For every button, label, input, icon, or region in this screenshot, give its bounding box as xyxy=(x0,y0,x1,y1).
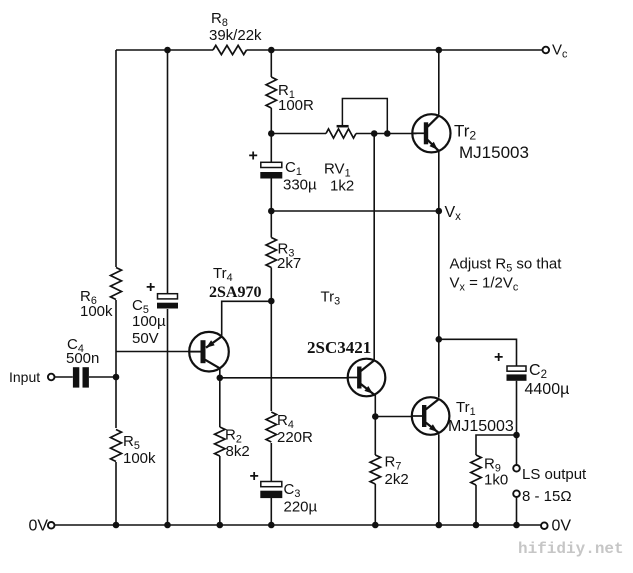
svg-text:2k7: 2k7 xyxy=(277,255,301,272)
junction top rail / C5 column xyxy=(164,47,171,54)
svg-text:hifidiy.net: hifidiy.net xyxy=(518,540,624,558)
svg-text:8k2: 8k2 xyxy=(226,443,250,460)
junction RV1 wiper return xyxy=(384,130,391,137)
watermark hifidiy.net xyxy=(518,540,624,558)
wire Tr3 emitter down to R7 node xyxy=(374,394,376,417)
wire C2 down to LS junction xyxy=(516,381,518,435)
wire C4 to divider node xyxy=(89,376,116,378)
terminal 0V left xyxy=(29,518,55,535)
svg-text:100k: 100k xyxy=(80,303,113,320)
wire left column from top rail down to bottom rail xyxy=(115,50,117,525)
junction Vx / C1 column xyxy=(268,208,275,215)
resistor R6 100k xyxy=(80,267,123,320)
transistor Tr2 MJ15003 (NPN) xyxy=(412,114,529,162)
wire top supply rail from R8 to Vc terminal xyxy=(247,49,547,51)
svg-text:330µ: 330µ xyxy=(283,177,317,194)
svg-text:2SC3421: 2SC3421 xyxy=(307,338,371,357)
wire Tr2 emitter to Vx node xyxy=(438,152,440,211)
wire R9 branch xyxy=(476,435,517,455)
capacitor C5 100u 50V electrolytic xyxy=(132,279,178,347)
potentiometer RV1 1k2 (rheostat, wiper tied to right end) xyxy=(324,99,387,195)
resistor R7 2k2 xyxy=(370,417,409,526)
junction bottom rail / R2 xyxy=(217,522,224,529)
junction C4 / R5-R6 divider xyxy=(113,374,120,381)
junction bottom rail / R7 xyxy=(372,522,379,529)
resistor R1 100R xyxy=(266,77,314,114)
svg-text:0V: 0V xyxy=(29,518,49,535)
svg-text:100R: 100R xyxy=(278,97,314,114)
wire RV1 net from node A to Tr2 base xyxy=(271,133,416,135)
svg-text:+: + xyxy=(249,148,258,165)
svg-text:1k2: 1k2 xyxy=(330,178,354,195)
wire R1 column from top rail to node A xyxy=(270,50,272,134)
svg-text:1k0: 1k0 xyxy=(484,472,508,489)
label LS impedance 8-15 ohm xyxy=(522,488,572,505)
junction Vx / Tr2 emitter xyxy=(436,208,443,215)
wire C1 to Vx node xyxy=(270,179,272,212)
junction node A (R1/C1/RV1) xyxy=(268,130,275,137)
resistor R4 220R xyxy=(265,411,313,446)
annotation adjust R5 xyxy=(450,256,563,294)
wire node A down to C1 xyxy=(270,134,272,164)
wire Tr3 base rail xyxy=(220,377,348,379)
svg-text:2k2: 2k2 xyxy=(385,471,409,488)
wire Tr4 base to R5/R6 divider xyxy=(116,351,202,353)
junction bottom rail / R5 xyxy=(113,522,120,529)
wire Tr2 collector to top rail xyxy=(438,50,440,115)
resistor R5 100k xyxy=(110,428,157,467)
svg-text:39k/22k: 39k/22k xyxy=(209,27,262,44)
terminal LS output upper xyxy=(513,465,520,472)
junction bottom rail / Tr1 emitter xyxy=(436,522,443,529)
wire R3 column from Vx node to Tr4 emitter node xyxy=(270,211,272,301)
wire Tr2 emitter column from Vx down to C2 junction and Tr1 collector xyxy=(438,211,440,398)
svg-text:220R: 220R xyxy=(277,429,313,446)
wire C2 branch from output node xyxy=(439,339,517,366)
wire R4 from Tr4 emitter node down to C3 xyxy=(270,301,272,482)
svg-text:Input: Input xyxy=(9,369,40,385)
svg-text:8 - 15Ω: 8 - 15Ω xyxy=(522,488,572,505)
svg-text:100µ: 100µ xyxy=(132,313,166,330)
capacitor C1 330u electrolytic xyxy=(249,148,318,194)
wire input terminal to C4 xyxy=(55,376,73,378)
svg-text:4400µ: 4400µ xyxy=(525,381,570,398)
junction top rail / R1 column xyxy=(268,47,275,54)
wire Tr1 emitter to bottom rail xyxy=(438,434,440,525)
svg-text:LS output: LS output xyxy=(522,466,587,483)
resistor R2 8k2 xyxy=(215,378,250,525)
junction Tr3 emitter / R7 / Tr1 base xyxy=(372,413,379,420)
svg-text:MJ15003: MJ15003 xyxy=(448,418,514,435)
capacitor C4 500n input coupling xyxy=(66,336,99,388)
junction bottom rail / C3 xyxy=(268,522,275,529)
junction output node / C2 branch xyxy=(436,336,443,343)
wire C3 to bottom rail xyxy=(270,498,272,525)
wire C5 column from top rail to C5 and down to bottom rail xyxy=(167,50,169,525)
svg-text:+: + xyxy=(494,349,503,366)
capacitor C3 220u electrolytic xyxy=(250,468,318,516)
terminal LS output lower xyxy=(513,490,520,497)
svg-text:+: + xyxy=(146,279,155,296)
wire top supply rail from top-left corner to R8 xyxy=(116,49,213,51)
terminal Input xyxy=(9,369,55,385)
svg-text:+: + xyxy=(250,468,259,485)
svg-text:Adjust R5 so that: Adjust R5 so that xyxy=(450,256,563,275)
svg-text:50V: 50V xyxy=(132,330,159,347)
junction Tr4 collector / R2 / Tr3 base xyxy=(217,375,224,382)
wire Tr3 collector up to RV1 net xyxy=(373,134,375,361)
resistor R9 1k0 xyxy=(471,455,508,525)
svg-text:100k: 100k xyxy=(123,450,156,467)
label LS output xyxy=(522,466,587,483)
wire lower LS terminal to bottom rail xyxy=(516,497,518,525)
svg-text:220µ: 220µ xyxy=(284,499,318,516)
svg-text:500n: 500n xyxy=(66,350,99,367)
node label Vx xyxy=(445,204,462,223)
terminal Vc xyxy=(543,42,569,61)
junction bottom rail / R9 xyxy=(473,522,480,529)
resistor R3 2k7 xyxy=(266,238,301,273)
wire Tr4 emitter to R3/R4 node xyxy=(222,301,272,336)
junction LS output / R9 xyxy=(513,432,520,439)
wire Tr4 collector down to Tr3 base rail xyxy=(219,368,221,378)
capacitor C2 4400u electrolytic xyxy=(494,349,569,398)
svg-text:MJ15003: MJ15003 xyxy=(459,143,529,162)
terminal 0V right xyxy=(541,518,571,535)
transistor Tr4 2SA970 (PNP) xyxy=(189,265,261,372)
junction bottom rail / LS return xyxy=(513,522,520,529)
svg-text:0V: 0V xyxy=(552,518,572,535)
svg-text:2SA970: 2SA970 xyxy=(209,284,261,301)
wire Tr1 base rail xyxy=(375,416,412,418)
wire Vx rail xyxy=(271,210,439,212)
transistor Tr1 MJ15003 (NPN) xyxy=(412,397,514,435)
transistor Tr3 2SC3421 (NPN) xyxy=(307,289,385,397)
resistor R8 39k/22k in top rail xyxy=(209,10,262,55)
junction RV1 net / Tr3 collector column xyxy=(371,130,378,137)
junction top rail / Tr2 collector xyxy=(436,47,443,54)
junction Tr4 emitter node on R3/R4 column xyxy=(268,298,275,305)
wire LS junction to upper LS terminal xyxy=(516,435,518,465)
junction bottom rail / C5 column xyxy=(164,522,171,529)
wire bottom 0V rail xyxy=(54,524,544,526)
